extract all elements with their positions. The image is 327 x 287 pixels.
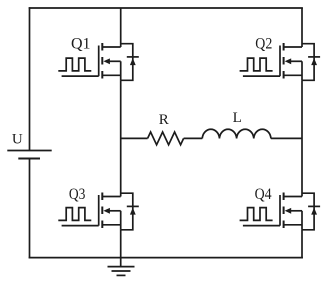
resistor R <box>148 132 184 145</box>
battery U plate short <box>18 158 40 160</box>
transistor Q4 <box>243 193 320 230</box>
wire: left bridge leg, Q3 source to bottom rail <box>120 230 122 259</box>
wire: left bridge leg, top rail to Q1 drain <box>120 8 122 47</box>
gate drive pulse symbol for Q3 <box>58 208 91 221</box>
wire: left bridge leg, Q1 source to Q3 drain (through output node) <box>120 80 122 196</box>
wire: right bridge leg, Q4 source to bottom rail <box>301 230 303 259</box>
wire: right bridge leg, top rail to Q2 drain <box>301 8 303 47</box>
battery U plate long <box>7 150 51 152</box>
gate drive pulse symbol for Q2 <box>240 58 273 71</box>
svg-text:Q1: Q1 <box>71 36 91 53</box>
gate drive pulse symbol for Q4 <box>240 208 273 221</box>
wire: right bridge leg, Q2 source to Q4 drain <box>301 80 303 196</box>
wire: left rail lower segment <box>29 159 31 259</box>
transistor Q1 <box>62 43 139 80</box>
wire: inductor L to right bridge leg <box>271 137 302 139</box>
svg-text:Q2: Q2 <box>255 36 272 53</box>
wire: ground stem <box>120 258 122 267</box>
wire: resistor R to inductor L <box>184 137 203 139</box>
wire: bottom rail <box>29 257 303 259</box>
svg-text:Q4: Q4 <box>255 186 272 203</box>
svg-text:L: L <box>233 110 242 126</box>
ground <box>108 267 135 276</box>
svg-text:Q3: Q3 <box>69 186 86 203</box>
svg-text:U: U <box>12 131 23 147</box>
svg-text:R: R <box>159 112 169 128</box>
wire: top rail <box>29 7 303 9</box>
inductor L <box>202 129 271 138</box>
transistor Q3 <box>62 193 139 230</box>
wire: output node to resistor R <box>121 137 148 139</box>
gate drive pulse symbol for Q1 <box>58 58 91 71</box>
wire: left rail upper segment <box>29 7 31 150</box>
transistor Q2 <box>243 43 320 80</box>
